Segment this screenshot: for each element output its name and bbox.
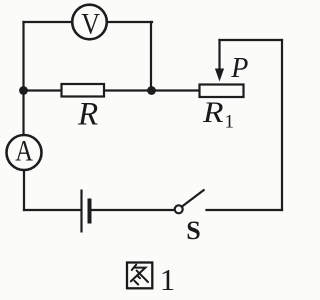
svg-text:S: S: [186, 216, 200, 245]
wire switch to bottom-right corner: [207, 209, 283, 211]
rheostat wiper arrowhead P: [215, 69, 224, 82]
svg-text:V: V: [81, 8, 100, 41]
wire wiper top horizontal: [220, 39, 283, 41]
switch S pivot circle: [175, 205, 183, 213]
wire node A to resistor R: [24, 89, 62, 91]
svg-text:R: R: [202, 96, 224, 129]
node A junction dot: [19, 86, 28, 95]
caption glyph 图: [127, 263, 152, 289]
wire top-left horizontal: [24, 21, 73, 23]
wire battery to switch: [91, 209, 175, 211]
svg-text:P: P: [230, 53, 248, 84]
voltmeter V1 circle: [72, 5, 107, 40]
wire left vertical below ammeter: [23, 171, 25, 211]
wire vertical from top into node B: [150, 22, 152, 91]
svg-text:A: A: [15, 134, 33, 167]
svg-text:R: R: [77, 96, 98, 132]
wire right vertical: [281, 40, 283, 210]
svg-text:1: 1: [160, 262, 176, 297]
wire node B to rheostat R1: [152, 89, 200, 91]
wire left vertical upper: [22, 22, 24, 135]
rheostat R1 body: [200, 85, 244, 98]
battery negative plate (short thick): [88, 199, 92, 224]
wire wiper vertical: [218, 40, 220, 72]
wire resistor R to node B: [104, 89, 152, 91]
wire top-right of voltmeter: [107, 21, 153, 23]
resistor R body: [62, 84, 105, 97]
svg-text:1: 1: [225, 111, 235, 132]
wire bottom-left to battery: [24, 209, 81, 211]
switch S lever: [182, 190, 205, 207]
ammeter A1 circle: [7, 135, 42, 170]
battery positive plate (long): [80, 190, 82, 233]
node B junction dot: [147, 86, 156, 95]
